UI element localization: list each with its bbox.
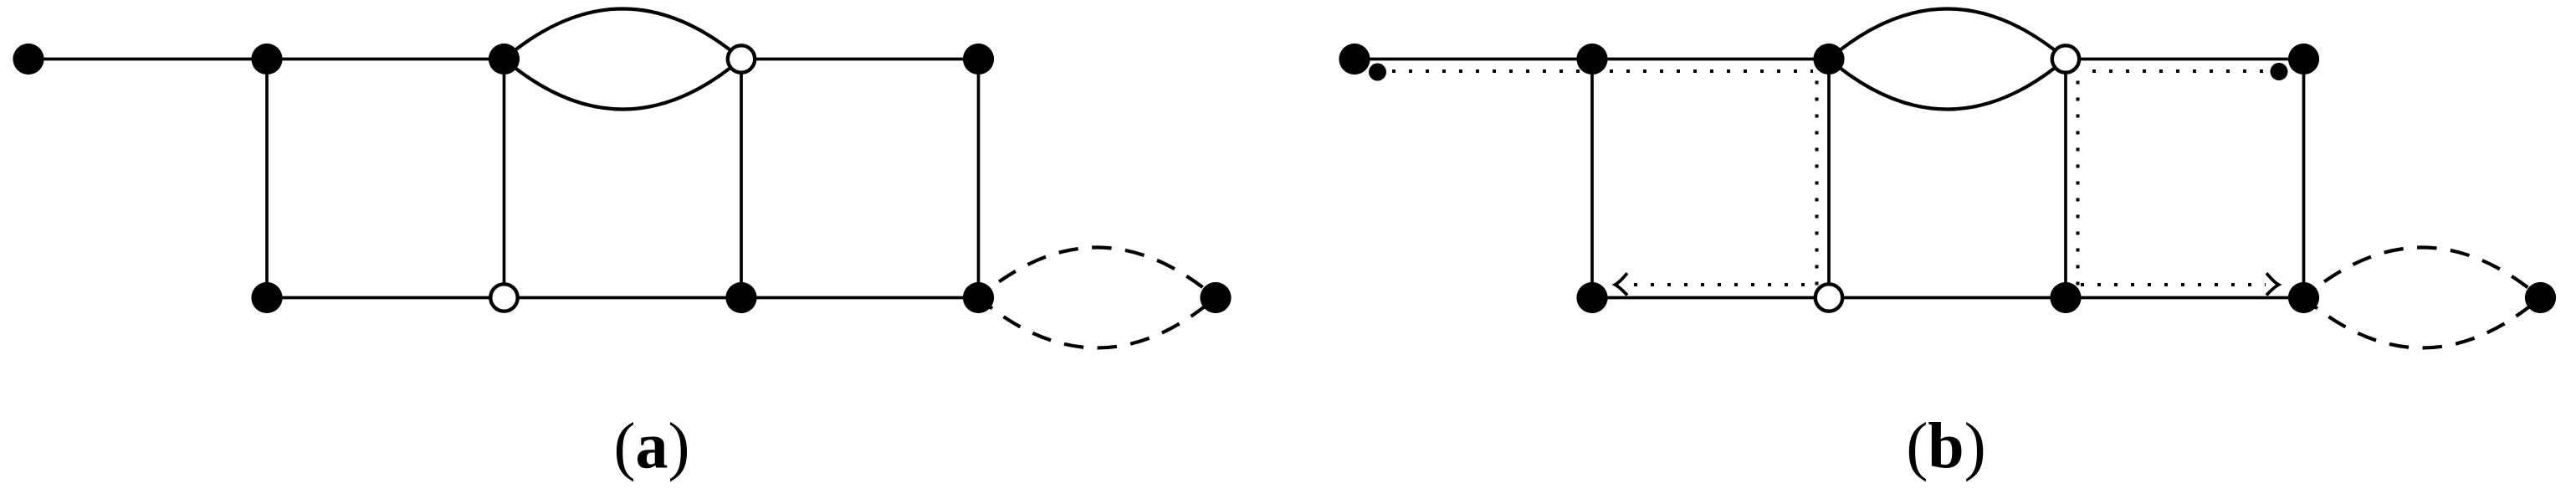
- svg-text:(a): (a): [614, 409, 690, 482]
- svg-text:(b): (b): [1906, 409, 1985, 482]
